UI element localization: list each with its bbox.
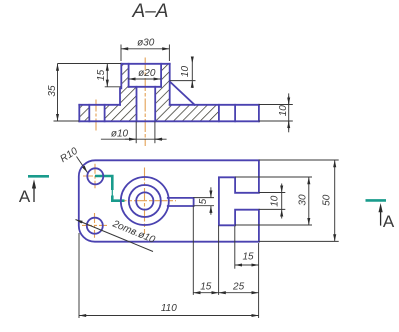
svg-text:15: 15 [200,281,212,292]
dim 30 extension lines [235,176,312,178]
dim 35 extension line bottom [54,120,80,122]
gusset rib hypotenuse [170,82,195,105]
section cut line (stepped, teal) [95,176,112,190]
svg-text:ø30: ø30 [137,38,155,49]
centerline bolt hole (section) [95,100,97,132]
slot edge seen in section [218,105,220,122]
dim 10 (boss) extension line [169,80,195,82]
slit top edge [168,197,194,199]
svg-text:10: 10 [270,195,281,207]
svg-text:A: A [19,187,31,206]
dim 10 (boss) line and outside arrows [191,57,193,64]
dim 10 slot extension lines [259,192,286,194]
dimensions of section view [54,45,293,144]
extension line left edge down [78,233,80,318]
bore phi20 left wall [128,64,130,87]
svg-text:15: 15 [242,251,254,262]
extension line from slot wall down [218,225,220,295]
bore phi20 right wall [160,64,162,87]
section line end stroke left [28,175,49,178]
central hole left wall [136,87,138,122]
extension line right edge down [258,243,260,318]
boss hole phi10 [136,192,153,209]
dim 15 line [106,64,108,87]
viewing arrow right [380,210,382,226]
dim 50 extension lines [259,159,339,161]
bolt hole right wall [104,105,106,122]
svg-text:50: 50 [322,194,333,206]
centerline main axis (section) [144,58,146,147]
dim 110 line [79,315,259,317]
dim 15 (tab) extension line [234,226,236,269]
section line end stroke right [366,199,387,202]
dim phi30 extension lines [120,45,122,62]
dim 15 extension lines [58,63,122,65]
base left end [78,105,80,122]
top-left hole phi10 [87,168,103,184]
plate outline with rounded left corners and right slots [79,160,259,241]
dim phi10 line and outside arrows [101,138,167,140]
svg-text:25: 25 [232,281,245,292]
tab edge seen in section [234,105,236,122]
viewing arrow left [33,186,35,202]
centerline main boss horizontal [114,200,177,202]
svg-text:A–A: A–A [132,1,169,22]
central hole right wall [154,87,156,122]
dim 30 line [308,177,310,225]
svg-text:110: 110 [161,303,177,314]
svg-text:ø20: ø20 [138,68,156,79]
base right end [258,105,260,122]
centerline main boss vertical [144,168,146,234]
dim 50 line [334,160,336,241]
leader 2 holes phi10 [76,220,154,252]
centerline bottom hole vertical [94,213,96,238]
svg-text:R10: R10 [58,146,80,165]
dim phi10 extension lines [135,122,137,144]
leader R10 [77,157,88,173]
base top edge right [170,104,259,106]
slit end cap [193,198,195,206]
boss outer circle phi30 [121,177,169,225]
centerline bottom hole horizontal [82,224,107,226]
svg-text:10: 10 [278,105,289,117]
boss right edge [169,64,171,105]
slit bottom edge [168,205,194,207]
dim 35 line [57,64,59,122]
base bottom edge [79,120,259,122]
svg-text:ø10: ø10 [111,128,129,139]
dim 5 line and outside arrows [210,187,212,197]
svg-text:A: A [383,212,395,231]
dimensions of plan view [76,157,339,319]
svg-text:15: 15 [96,69,107,81]
bottom-left hole phi10 [87,218,103,234]
bolt hole left wall [88,105,90,122]
dim 10 (base height) extension lines [259,104,293,106]
centerline top hole horizontal [83,175,108,177]
dim 25 bottom line [219,292,259,294]
svg-text:30: 30 [298,194,309,206]
hatch fill left region [79,64,136,122]
dim 5 extension lines [193,197,214,199]
dim phi20 line [128,78,161,80]
dim 10 slot line and outside arrows [281,184,283,193]
boss circle phi20 [129,185,161,217]
svg-text:5: 5 [198,198,209,204]
extension line from slit end down [192,206,194,295]
dim phi30 line [121,48,169,50]
boss left edge [120,64,121,105]
dim 15 (tab) line [235,264,259,266]
dim 15 bottom line [193,292,218,294]
hatch fill right region [155,64,219,122]
dim 10 (base height) line and outside arrows [288,93,290,132]
svg-text:35: 35 [47,85,58,97]
centerline top hole vertical [94,164,96,189]
svg-text:10: 10 [180,66,191,78]
bore phi20 bottom [129,86,162,88]
left step top edge [79,104,120,106]
boss top edge [121,63,169,65]
